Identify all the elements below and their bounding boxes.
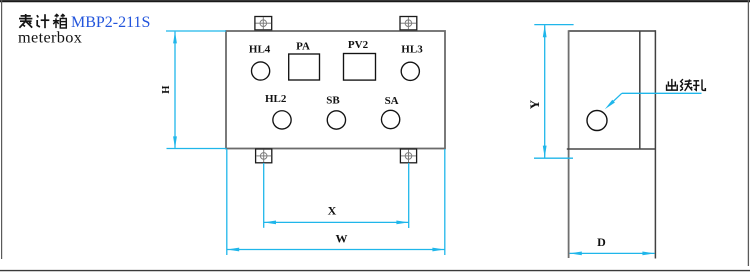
svg-text:H: H [161,86,172,94]
svg-text:PA: PA [296,40,310,52]
svg-text:PV2: PV2 [348,39,369,51]
svg-text:W: W [336,232,348,246]
svg-text:Y: Y [527,99,542,109]
svg-text:SB: SB [326,94,340,106]
svg-text:D: D [597,235,606,249]
svg-text:HL2: HL2 [265,93,287,105]
svg-text:X: X [328,204,337,218]
svg-text:HL3: HL3 [401,44,423,56]
svg-text:meterbox: meterbox [18,27,82,46]
svg-text:HL4: HL4 [249,44,271,56]
svg-text:SA: SA [385,95,399,107]
svg-text:MBP2-211S: MBP2-211S [71,14,150,31]
